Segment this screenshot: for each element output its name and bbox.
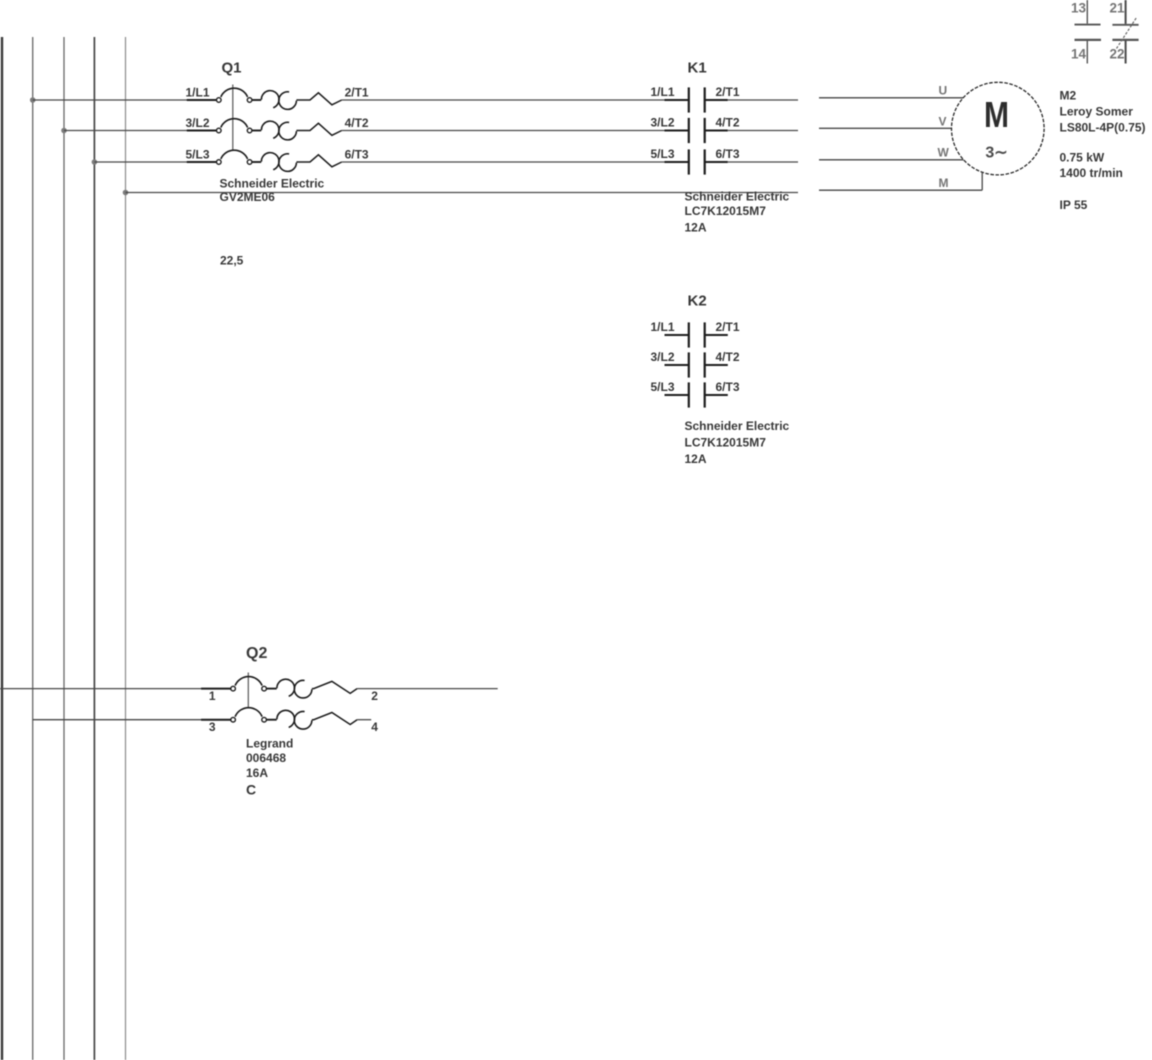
svg-text:LC7K12015M7: LC7K12015M7 <box>685 436 767 450</box>
motor M2 circle <box>952 82 1045 175</box>
contactor K2 value label <box>685 419 790 466</box>
svg-text:21: 21 <box>1109 1 1125 16</box>
breaker Q2 pole 1 contact circles and blade <box>231 677 277 691</box>
pin label 4/T2 <box>716 116 740 130</box>
wire Q2 pole 2 input <box>33 719 231 721</box>
label 22,5 <box>220 254 244 268</box>
svg-text:Schneider Electric: Schneider Electric <box>220 177 325 191</box>
contactor K2 pole 3 contact bars <box>689 382 705 407</box>
junction node at 94.4,162.0 <box>92 159 98 165</box>
svg-text:1: 1 <box>209 689 216 703</box>
breaker Q1 pole 3 magnetic element <box>296 155 341 167</box>
breaker Q2 pole 2 thermal element <box>277 710 312 729</box>
svg-text:4/T2: 4/T2 <box>716 116 740 130</box>
terminal label W <box>938 146 950 160</box>
svg-text:W: W <box>938 146 950 160</box>
svg-text:3/L2: 3/L2 <box>650 350 674 364</box>
breaker Q1 pole 2 magnetic element <box>296 123 341 135</box>
pin label 1 <box>209 689 216 703</box>
svg-text:6/T3: 6/T3 <box>716 380 740 394</box>
svg-text:Legrand: Legrand <box>246 737 293 751</box>
auxiliary contact 21-22 (NC) <box>1112 0 1138 64</box>
contactor K2 pole 1 left terminal stub <box>665 334 689 336</box>
contactor K2 pole 2 left terminal stub <box>665 364 689 366</box>
wire bus line 4 <box>93 37 95 1060</box>
breaker Q2 pole 2 magnetic element <box>312 713 357 725</box>
breaker Q2 pole 1 thermal element <box>277 679 312 698</box>
wire bus line 1 <box>1 37 3 1060</box>
wire K1 pole 3 output <box>728 161 798 163</box>
svg-text:2: 2 <box>371 689 378 703</box>
svg-text:13: 13 <box>1071 1 1087 16</box>
junction node at 64.0,130.5 <box>61 128 67 134</box>
svg-text:1400 tr/min: 1400 tr/min <box>1060 166 1123 180</box>
wire V segment to motor <box>819 127 952 129</box>
wire bus line 2 <box>32 37 34 1060</box>
svg-text:5/L3: 5/L3 <box>650 147 674 161</box>
wire K1 pole 1 output <box>728 99 798 101</box>
contactor K1 pole 1 right terminal stub <box>705 99 728 101</box>
contactor K2 pole 2 contact bars <box>689 352 705 377</box>
breaker Q1 pole 1 contact circles and blade <box>217 88 262 102</box>
terminal label M <box>939 176 949 190</box>
svg-text:IP 55: IP 55 <box>1060 198 1088 212</box>
pin label 4 <box>371 720 378 734</box>
junction node at 32.7,100.0 <box>30 97 36 103</box>
junction node at 125.5,192.5 <box>123 190 129 196</box>
breaker Q2 pole 2 contact circles and blade <box>231 708 277 722</box>
contactor K2 pole 1 contact bars <box>689 322 705 347</box>
svg-text:1/L1: 1/L1 <box>650 320 674 334</box>
contactor K1 designator <box>688 60 707 77</box>
svg-text:006468: 006468 <box>246 751 286 765</box>
svg-text:LC7K12015M7: LC7K12015M7 <box>685 204 767 218</box>
svg-text:0.75 kW: 0.75 kW <box>1060 151 1105 165</box>
svg-text:M: M <box>939 176 949 190</box>
breaker Q1 pole 3 contact circles and blade <box>217 150 262 164</box>
svg-text:12A: 12A <box>685 221 707 235</box>
pin label 4/T2 <box>345 116 369 130</box>
svg-text:V: V <box>939 115 947 129</box>
wire bus line 3 <box>63 37 65 1060</box>
wire bus line 5 <box>125 37 127 1060</box>
svg-text:22,5: 22,5 <box>220 254 244 268</box>
contactor K1 pole 2 left terminal stub <box>665 130 689 132</box>
pin label 2/T1 <box>345 86 369 100</box>
svg-text:M2: M2 <box>1060 89 1077 103</box>
wire M (neutral/earth row) <box>126 192 799 194</box>
svg-text:LS80L-4P(0.75): LS80L-4P(0.75) <box>1060 121 1146 135</box>
breaker Q1 pole 2 contact circles and blade <box>217 119 262 133</box>
breaker Q1 pole 3 thermal element <box>261 153 296 172</box>
svg-text:2/T1: 2/T1 <box>716 85 740 99</box>
svg-text:6/T3: 6/T3 <box>716 147 740 161</box>
breaker Q1 pole 2 thermal element <box>261 121 296 140</box>
pin label 22 <box>1109 47 1124 62</box>
svg-text:C: C <box>246 782 256 798</box>
svg-text:5/L3: 5/L3 <box>650 380 674 394</box>
pin label 3/L2 <box>185 116 209 130</box>
breaker Q2 value label <box>246 737 293 798</box>
auxiliary contact 13-14 (NO) <box>1075 0 1102 64</box>
svg-text:U: U <box>939 84 948 98</box>
svg-text:4/T2: 4/T2 <box>716 350 740 364</box>
breaker Q2 pole 1 magnetic element <box>312 681 357 693</box>
pin label 2/T1 <box>716 85 740 99</box>
svg-text:M: M <box>984 94 1009 135</box>
breaker Q2 linkage <box>247 673 249 709</box>
contactor K1 pole 1 left terminal stub <box>665 99 689 101</box>
terminal label V <box>939 115 947 129</box>
breaker Q1 pole 1 magnetic element <box>296 93 341 105</box>
pin label 1/L1 <box>650 85 674 99</box>
breaker Q1 pole 1 thermal element <box>261 91 296 110</box>
svg-text:4: 4 <box>371 720 378 734</box>
svg-text:6/T3: 6/T3 <box>345 148 369 162</box>
pin label 5/L3 <box>650 380 674 394</box>
svg-text:3/L2: 3/L2 <box>650 116 674 130</box>
pin label 6/T3 <box>345 148 369 162</box>
svg-text:3/L2: 3/L2 <box>185 116 209 130</box>
wire M segment to motor <box>819 172 982 190</box>
svg-text:K1: K1 <box>688 60 707 77</box>
pin label 3/L2 <box>650 116 674 130</box>
contactor K1 pole 2 right terminal stub <box>705 130 728 132</box>
pin label 21 <box>1109 1 1125 16</box>
breaker Q1 linkage <box>232 85 234 151</box>
pin label 4/T2 <box>716 350 740 364</box>
pin label 5/L3 <box>650 147 674 161</box>
svg-text:5/L3: 5/L3 <box>185 148 209 162</box>
wire Q2 pole 1 output <box>357 688 498 690</box>
pin label 6/T3 <box>716 380 740 394</box>
svg-text:14: 14 <box>1071 47 1087 62</box>
svg-text:3: 3 <box>209 720 216 734</box>
pin label 2/T1 <box>716 320 740 334</box>
breaker Q2 designator <box>246 645 267 662</box>
svg-text:K2: K2 <box>688 293 707 310</box>
svg-text:Q1: Q1 <box>222 60 242 77</box>
svg-text:Leroy Somer: Leroy Somer <box>1060 105 1134 119</box>
contactor K1 pole 3 contact bars <box>689 149 705 174</box>
contactor K1 pole 3 right terminal stub <box>705 161 728 163</box>
svg-text:2/T1: 2/T1 <box>345 86 369 100</box>
pin label 1/L1 <box>185 86 209 100</box>
pin label 1/L1 <box>650 320 674 334</box>
wire Q1 pole 3 input <box>94 161 216 163</box>
svg-text:12A: 12A <box>685 452 707 466</box>
pin label 5/L3 <box>185 148 209 162</box>
svg-text:22: 22 <box>1109 47 1124 62</box>
motor M2 symbol text <box>984 94 1009 162</box>
wire Q1 pole 2 output <box>342 130 665 132</box>
contactor K2 pole 3 right terminal stub <box>705 394 728 396</box>
wire W segment to motor <box>819 159 964 161</box>
contactor K2 pole 2 right terminal stub <box>705 364 728 366</box>
svg-text:2/T1: 2/T1 <box>716 320 740 334</box>
wire Q1 pole 3 output <box>342 161 665 163</box>
wire Q1 pole 1 input <box>33 99 217 101</box>
svg-text:1/L1: 1/L1 <box>185 86 209 100</box>
contactor K1 pole 3 left terminal stub <box>665 161 689 163</box>
svg-text:Schneider Electric: Schneider Electric <box>685 190 790 204</box>
contactor K1 value label <box>685 190 790 235</box>
svg-text:Schneider Electric: Schneider Electric <box>685 419 790 433</box>
motor M2 nameplate text <box>1060 89 1146 213</box>
contactor K1 pole 1 contact bars <box>689 87 705 112</box>
contactor K2 pole 3 left terminal stub <box>665 394 689 396</box>
contactor K2 pole 1 right terminal stub <box>705 334 728 336</box>
contactor K2 designator <box>688 293 707 310</box>
pin label 13 <box>1071 1 1087 16</box>
pin label 14 <box>1071 47 1087 62</box>
wire Q2 pole 2 output <box>357 719 371 721</box>
terminal label U <box>939 84 948 98</box>
wire U segment to motor <box>819 97 963 99</box>
svg-text:1/L1: 1/L1 <box>650 85 674 99</box>
svg-text:16A: 16A <box>246 766 268 780</box>
breaker Q1 designator <box>222 60 242 77</box>
svg-text:3∼: 3∼ <box>985 145 1007 162</box>
svg-text:Q2: Q2 <box>246 645 267 662</box>
contactor K1 pole 2 contact bars <box>689 118 705 143</box>
pin label 2 <box>371 689 378 703</box>
wire Q1 pole 2 input <box>64 130 216 132</box>
wire Q1 pole 1 output <box>342 99 665 101</box>
pin label 3/L2 <box>650 350 674 364</box>
wire Q2 pole 1 input <box>0 688 231 690</box>
svg-text:4/T2: 4/T2 <box>345 116 369 130</box>
pin label 6/T3 <box>716 147 740 161</box>
breaker Q1 value label <box>220 177 325 205</box>
wire K1 pole 2 output <box>728 130 798 132</box>
pin label 3 <box>209 720 216 734</box>
